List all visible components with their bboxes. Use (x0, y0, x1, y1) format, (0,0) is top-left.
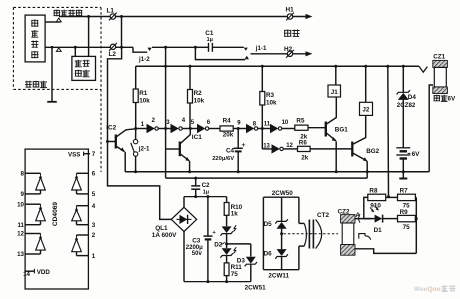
svg-text:9: 9 (21, 191, 25, 198)
svg-text:D4: D4 (408, 94, 417, 101)
svg-text:QL1: QL1 (155, 225, 168, 232)
svg-text:D3: D3 (237, 257, 246, 264)
svg-text:j1-1: j1-1 (255, 45, 267, 52)
svg-text:910: 910 (370, 203, 381, 210)
svg-text:D6: D6 (264, 250, 273, 257)
svg-text:Wee: Wee (414, 286, 428, 293)
svg-text:CT2: CT2 (317, 212, 330, 219)
svg-text:L2: L2 (109, 51, 117, 58)
svg-text:10k: 10k (266, 100, 277, 107)
svg-text:5: 5 (92, 191, 96, 198)
svg-text:j1-2: j1-2 (138, 56, 150, 63)
svg-text:IC1: IC1 (192, 134, 202, 141)
svg-text:C3: C3 (192, 238, 201, 245)
svg-text:11: 11 (17, 222, 24, 229)
svg-text:CZ1: CZ1 (433, 54, 445, 61)
svg-text:12: 12 (17, 231, 24, 238)
svg-text:10k: 10k (194, 98, 205, 105)
svg-text:CD4069: CD4069 (52, 202, 59, 227)
svg-text:2k: 2k (301, 155, 309, 162)
svg-text:+: + (242, 142, 246, 149)
svg-text:7: 7 (92, 151, 96, 158)
svg-text:20k: 20k (223, 131, 234, 138)
svg-text:2CW51: 2CW51 (245, 285, 266, 292)
svg-text:D1: D1 (374, 227, 383, 234)
svg-text:R7: R7 (400, 188, 409, 195)
svg-text:R3: R3 (266, 92, 275, 99)
svg-text:50v: 50v (192, 251, 203, 257)
svg-text:1k: 1k (231, 211, 239, 218)
svg-text:2: 2 (92, 232, 96, 239)
svg-text:11: 11 (264, 121, 271, 127)
svg-text:D2: D2 (214, 241, 223, 248)
svg-text:220μ/6V: 220μ/6V (212, 156, 234, 162)
svg-text:10: 10 (17, 201, 24, 208)
svg-text:6V: 6V (412, 151, 421, 158)
svg-text:C2: C2 (202, 182, 210, 189)
svg-text:Qoo: Qoo (428, 286, 441, 293)
svg-text:R1: R1 (139, 90, 148, 97)
svg-text:75: 75 (231, 271, 239, 278)
svg-text:4: 4 (92, 203, 96, 210)
svg-text:VDD: VDD (37, 269, 51, 276)
svg-text:R4: R4 (223, 118, 232, 125)
svg-text:3: 3 (92, 222, 96, 229)
svg-text:13: 13 (263, 143, 270, 149)
svg-text:J1: J1 (331, 89, 338, 96)
svg-text:H1: H1 (286, 7, 295, 14)
svg-text:R11: R11 (231, 264, 243, 271)
svg-text:1: 1 (92, 253, 96, 260)
svg-text:6V: 6V (448, 96, 456, 103)
svg-text:R5: R5 (296, 117, 305, 124)
svg-text:8: 8 (21, 171, 25, 178)
svg-text:C4: C4 (226, 147, 235, 154)
svg-text:R6: R6 (299, 139, 308, 146)
svg-text:BG2: BG2 (366, 148, 379, 155)
svg-text:14: 14 (23, 271, 30, 278)
svg-text:1μ: 1μ (203, 189, 209, 195)
svg-text:2CW50: 2CW50 (272, 190, 293, 197)
svg-text:75: 75 (403, 224, 411, 231)
svg-text:12: 12 (286, 143, 293, 149)
svg-text:R2: R2 (194, 90, 203, 97)
svg-text:13: 13 (17, 251, 24, 258)
svg-text:j2-1: j2-1 (138, 146, 150, 153)
svg-text:VSS: VSS (68, 151, 80, 158)
svg-text:BG1: BG1 (335, 126, 348, 133)
svg-text:L1: L1 (107, 8, 115, 15)
svg-text:1A 600V: 1A 600V (152, 232, 177, 239)
svg-text:A: A (355, 212, 360, 219)
svg-text:1μ: 1μ (207, 37, 213, 43)
svg-text:6: 6 (92, 171, 96, 178)
svg-text:10k: 10k (139, 98, 150, 105)
svg-text:10: 10 (282, 120, 289, 126)
svg-text:R8: R8 (369, 188, 378, 195)
svg-text:R9: R9 (400, 209, 409, 216)
svg-text:J2: J2 (362, 107, 369, 114)
svg-text:H2: H2 (284, 46, 293, 53)
svg-text:2CW11: 2CW11 (268, 273, 289, 280)
svg-text:2CZ82: 2CZ82 (397, 102, 416, 109)
svg-text:D5: D5 (264, 221, 273, 228)
